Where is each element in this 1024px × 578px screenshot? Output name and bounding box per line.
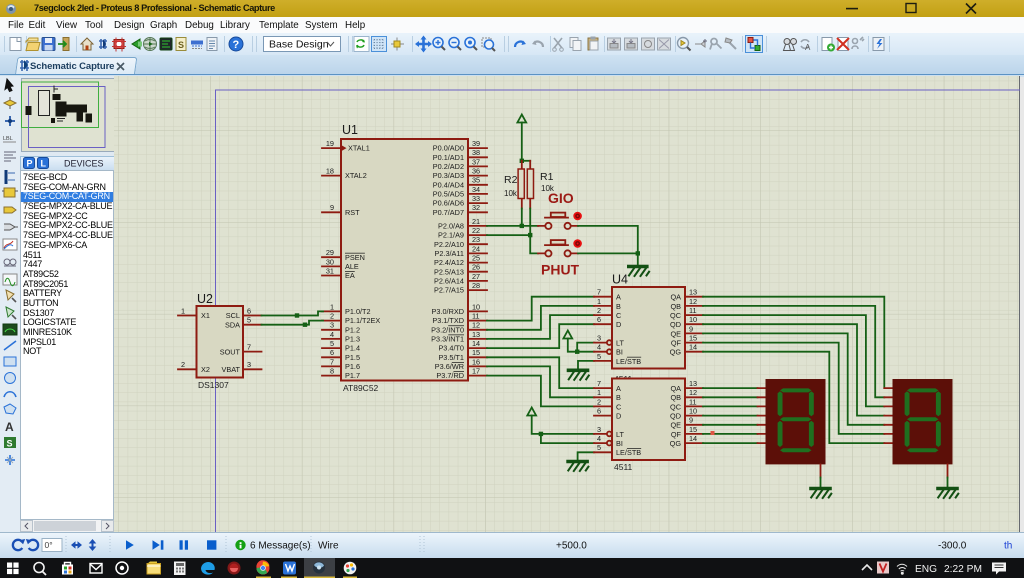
svg-text:11: 11 bbox=[689, 306, 697, 315]
wire U4 QF to right display staircase bbox=[703, 343, 884, 434]
svg-text:A: A bbox=[616, 293, 621, 302]
svg-text:12: 12 bbox=[689, 388, 697, 397]
grid toggle icon (active) bbox=[372, 37, 387, 52]
U1 left pin names bbox=[345, 144, 380, 381]
media player icon bbox=[283, 562, 296, 575]
U2 pin names bbox=[201, 311, 241, 374]
svg-text:P0.3/AD3: P0.3/AD3 bbox=[433, 171, 464, 180]
import icon bbox=[58, 38, 69, 51]
bus icon bbox=[6, 170, 15, 184]
svg-text:S: S bbox=[7, 439, 13, 449]
config icon bbox=[710, 39, 722, 50]
toolbar bbox=[0, 33, 1024, 55]
left panel bbox=[20, 76, 114, 533]
search icon bbox=[784, 39, 797, 51]
svg-text:14: 14 bbox=[472, 339, 480, 348]
ground at U5 LE/STB bbox=[568, 462, 588, 472]
measure icon bbox=[191, 41, 203, 49]
home icon bbox=[81, 38, 93, 50]
svg-text:0°: 0° bbox=[45, 540, 53, 550]
svg-text:2: 2 bbox=[597, 306, 601, 315]
redo icon bbox=[532, 41, 543, 48]
3d viewer icon bbox=[132, 39, 142, 49]
svg-text:QC: QC bbox=[670, 402, 681, 411]
remove sheet icon bbox=[837, 38, 849, 51]
block move icon bbox=[625, 38, 638, 50]
power symbol for U4 LT/BI bbox=[563, 331, 577, 352]
wire power to U5 BI bbox=[541, 434, 594, 443]
svg-text:P1.3: P1.3 bbox=[345, 335, 360, 344]
2d marker icon bbox=[5, 455, 15, 465]
svg-text:SOUT: SOUT bbox=[220, 347, 241, 356]
junction at power/R2/R1 bbox=[520, 159, 524, 163]
svg-text:QF: QF bbox=[671, 430, 682, 439]
2d box icon bbox=[4, 357, 16, 366]
svg-text:QB: QB bbox=[670, 302, 681, 311]
red origin marker bbox=[711, 431, 715, 435]
svg-text:P1.6: P1.6 bbox=[345, 362, 360, 371]
svg-text:30: 30 bbox=[326, 257, 334, 266]
resistor R1 bbox=[527, 161, 555, 209]
window title bar bbox=[0, 0, 1024, 17]
svg-text:1: 1 bbox=[330, 302, 334, 311]
svg-text:10: 10 bbox=[689, 407, 697, 416]
new sheet icon bbox=[822, 38, 835, 52]
svg-text:34: 34 bbox=[472, 185, 480, 194]
device pin icon bbox=[4, 224, 18, 230]
svg-text:7: 7 bbox=[597, 288, 601, 297]
wire SDA to U1 P1.1 bbox=[262, 321, 324, 325]
junction R2 / pin21 wire bbox=[520, 224, 524, 228]
svg-text:16: 16 bbox=[472, 357, 480, 366]
zoom in icon bbox=[433, 38, 445, 51]
svg-text:22: 22 bbox=[472, 226, 480, 235]
U5 part label 4511 bbox=[614, 462, 633, 472]
cut icon bbox=[553, 38, 564, 51]
report icon bbox=[207, 38, 217, 51]
wire power to U5 LT bbox=[541, 433, 594, 435]
U1 right pin names bbox=[431, 144, 464, 381]
svg-text:P2.4/A12: P2.4/A12 bbox=[434, 258, 464, 267]
svg-text:QG: QG bbox=[670, 348, 682, 357]
window controls bbox=[830, 0, 1024, 17]
wire label icon bbox=[3, 136, 16, 142]
svg-text:7: 7 bbox=[597, 379, 601, 388]
angle box bbox=[42, 539, 62, 552]
svg-text:35: 35 bbox=[472, 176, 480, 185]
svg-text:QA: QA bbox=[670, 384, 681, 393]
wire SCL to U1 P1.0 bbox=[262, 311, 324, 315]
hammer icon bbox=[725, 38, 736, 49]
L button bbox=[38, 158, 49, 169]
svg-text:?: ? bbox=[233, 39, 240, 51]
svg-text:9: 9 bbox=[689, 416, 693, 425]
svg-text:ALE: ALE bbox=[345, 262, 359, 271]
svg-text:LE/STB: LE/STB bbox=[616, 448, 641, 457]
svg-text:SCL: SCL bbox=[226, 311, 240, 320]
canvas background bbox=[114, 76, 1020, 532]
svg-text:14: 14 bbox=[689, 343, 697, 352]
selection mode icon bbox=[5, 79, 13, 92]
svg-text:P1.2: P1.2 bbox=[345, 325, 360, 334]
svg-text:A: A bbox=[616, 384, 621, 393]
2d line icon bbox=[4, 341, 16, 350]
wire U1 pin21 to GIO switch bbox=[487, 225, 538, 227]
svg-text:6: 6 bbox=[330, 348, 334, 357]
decoder U4 body (4511) bbox=[612, 273, 685, 369]
DS1 segments bbox=[778, 388, 814, 452]
open folder icon bbox=[26, 38, 40, 51]
tray chevron bbox=[862, 565, 872, 570]
svg-text:S: S bbox=[178, 40, 184, 50]
svg-text:QE: QE bbox=[670, 421, 681, 430]
svg-text:36: 36 bbox=[472, 167, 480, 176]
svg-text:2: 2 bbox=[181, 360, 185, 369]
svg-text:XTAL1: XTAL1 bbox=[348, 144, 370, 153]
svg-text:VBAT: VBAT bbox=[221, 365, 240, 374]
2d symbol icon bbox=[4, 437, 16, 449]
svg-text:5: 5 bbox=[247, 316, 251, 325]
svg-text:11: 11 bbox=[472, 312, 480, 321]
wire power to U4 BI bbox=[577, 351, 594, 353]
junction R1 / pin22 wire bbox=[528, 233, 532, 237]
svg-text:12: 12 bbox=[472, 321, 480, 330]
svg-text:P0.1/AD1: P0.1/AD1 bbox=[433, 153, 464, 162]
svg-text:12: 12 bbox=[689, 297, 697, 306]
svg-text:U4: U4 bbox=[612, 273, 628, 287]
refresh icon bbox=[354, 37, 369, 52]
P button bbox=[24, 158, 35, 169]
svg-text:13: 13 bbox=[689, 288, 697, 297]
svg-text:10: 10 bbox=[689, 315, 697, 324]
wire U4 QG to right display staircase bbox=[703, 352, 884, 443]
svg-text:29: 29 bbox=[326, 248, 334, 257]
U5 pin stubs bbox=[594, 388, 703, 452]
active app underlines bbox=[256, 577, 357, 578]
tape icon bbox=[4, 259, 16, 266]
wire U5 LE/STB to ground bbox=[578, 452, 594, 460]
svg-text:4511: 4511 bbox=[614, 462, 633, 472]
svg-text:QD: QD bbox=[670, 320, 681, 329]
svg-text:P2.2/A10: P2.2/A10 bbox=[434, 240, 464, 249]
PHUT button actuator bbox=[573, 239, 582, 248]
erc icon bbox=[873, 38, 884, 51]
schematic canvas bbox=[114, 76, 1020, 532]
junction buttons ground riser bbox=[636, 251, 640, 255]
svg-text:1: 1 bbox=[597, 388, 601, 397]
svg-text:4: 4 bbox=[597, 434, 601, 443]
U2 pin numbers bbox=[181, 306, 251, 369]
svg-text:L: L bbox=[41, 159, 47, 169]
mail icon bbox=[90, 564, 102, 574]
svg-text:2: 2 bbox=[330, 312, 334, 321]
svg-text:D: D bbox=[616, 320, 621, 329]
svg-text:-300.0: -300.0 bbox=[938, 541, 967, 552]
wire mode icon bbox=[4, 97, 16, 109]
overview green viewport rect bbox=[22, 82, 99, 128]
tray V icon bbox=[877, 562, 889, 574]
copy icon bbox=[570, 38, 581, 51]
goto icon bbox=[678, 38, 691, 51]
U4 pin names bbox=[616, 293, 682, 366]
overview mini schematic bbox=[26, 86, 93, 124]
GIO button actuator bbox=[573, 212, 582, 221]
7-segment display DS1 body bbox=[766, 379, 826, 464]
svg-text:Base Design: Base Design bbox=[269, 39, 329, 51]
svg-text:P3.6/WR: P3.6/WR bbox=[435, 362, 464, 371]
svg-text:18: 18 bbox=[326, 167, 334, 176]
generator icon bbox=[3, 274, 17, 286]
svg-text:A: A bbox=[5, 420, 14, 434]
menu bar bbox=[0, 17, 1024, 34]
wire U1 P3.5 to U5 input A bbox=[487, 357, 594, 388]
help icon bbox=[229, 37, 243, 51]
wire U4 QC to right display staircase bbox=[703, 315, 884, 406]
pan icon bbox=[415, 36, 432, 53]
security icon bbox=[228, 562, 241, 575]
DS2 common cathode wire bbox=[947, 464, 949, 486]
svg-text:C: C bbox=[616, 311, 621, 320]
U1 right pin stubs bbox=[468, 148, 487, 376]
wire U1 P3.7 to U5 input C bbox=[487, 376, 594, 407]
design explorer icon bbox=[160, 38, 172, 50]
svg-text:5: 5 bbox=[597, 443, 601, 452]
wire U1 P3.1 to U4 input A bbox=[487, 297, 594, 321]
svg-text:15: 15 bbox=[472, 348, 480, 357]
power symbol above R2/R1 bbox=[517, 115, 526, 161]
svg-text:P3.3/INT1: P3.3/INT1 bbox=[431, 335, 464, 344]
wire U1 P3.6 to U5 input B bbox=[487, 366, 594, 397]
svg-text:7: 7 bbox=[330, 357, 334, 366]
wire U4 QE to right display staircase bbox=[703, 333, 884, 424]
junction U4 LT/BI power bbox=[575, 350, 579, 354]
graph mode icon bbox=[3, 239, 17, 250]
svg-text:6: 6 bbox=[597, 407, 601, 416]
svg-text:R2: R2 bbox=[504, 174, 518, 186]
svg-text:14: 14 bbox=[689, 434, 697, 443]
step button bbox=[153, 540, 164, 549]
IC U2 body (DS1307 RTC) bbox=[197, 292, 244, 390]
flip vertical icon bbox=[89, 539, 97, 551]
ground at U4 LE/STB bbox=[569, 370, 589, 380]
schematic tab icon + label bbox=[18, 58, 32, 73]
svg-text:P3.2/INT0: P3.2/INT0 bbox=[431, 325, 464, 334]
svg-text:P: P bbox=[27, 159, 33, 169]
junction U5 LT/BI power bbox=[539, 432, 543, 436]
svg-text:4: 4 bbox=[330, 330, 334, 339]
svg-text:5: 5 bbox=[330, 339, 334, 348]
pcb layout icon bbox=[112, 38, 126, 52]
svg-text:Wire: Wire bbox=[318, 541, 339, 552]
decoder U5 body (4511) bbox=[612, 379, 685, 461]
svg-text:P0.5/AD5: P0.5/AD5 bbox=[433, 190, 464, 199]
svg-text:38: 38 bbox=[472, 148, 480, 157]
svg-text:th: th bbox=[1004, 541, 1012, 552]
block delete icon bbox=[658, 38, 671, 50]
U4 pin stubs bbox=[594, 297, 703, 361]
start button bbox=[7, 563, 19, 575]
origin icon bbox=[391, 38, 404, 51]
paint icon bbox=[344, 562, 357, 575]
svg-text:+500.0: +500.0 bbox=[556, 541, 587, 552]
wire U4 QA to right display staircase bbox=[703, 297, 884, 388]
paste icon bbox=[588, 37, 598, 51]
svg-text:PSEN: PSEN bbox=[345, 253, 365, 262]
svg-text:3: 3 bbox=[247, 360, 251, 369]
svg-text:C: C bbox=[616, 402, 621, 411]
right display pin stubs bbox=[884, 388, 893, 443]
svg-text:27: 27 bbox=[472, 272, 480, 281]
svg-text:B: B bbox=[616, 393, 621, 402]
svg-text:D: D bbox=[616, 412, 621, 421]
svg-text:R1: R1 bbox=[540, 171, 554, 183]
svg-text:2: 2 bbox=[597, 397, 601, 406]
svg-text:QB: QB bbox=[670, 393, 681, 402]
svg-text:1: 1 bbox=[181, 306, 185, 315]
svg-text:P2.0/A8: P2.0/A8 bbox=[438, 222, 464, 231]
DS2 segments bbox=[905, 388, 941, 452]
svg-text:6 Message(s): 6 Message(s) bbox=[250, 541, 311, 552]
get started icon bbox=[116, 562, 128, 574]
svg-text:31: 31 bbox=[326, 266, 334, 275]
message info icon bbox=[235, 540, 245, 550]
svg-text:X2: X2 bbox=[201, 365, 210, 374]
svg-text:A: A bbox=[805, 43, 811, 52]
block rotate icon bbox=[642, 38, 655, 50]
wire U1 P3.2 to U4 input B bbox=[487, 306, 594, 330]
resistor R2 bbox=[504, 161, 524, 209]
svg-text:6: 6 bbox=[597, 315, 601, 324]
svg-text:P2.7/A15: P2.7/A15 bbox=[434, 286, 464, 295]
left display pin stubs bbox=[758, 388, 767, 443]
svg-text:P1.1/T2EX: P1.1/T2EX bbox=[345, 316, 380, 325]
junction on SCL wire bbox=[295, 313, 299, 317]
svg-text:9: 9 bbox=[330, 203, 334, 212]
proteus active app bbox=[304, 558, 335, 578]
svg-text:28: 28 bbox=[472, 281, 480, 290]
left icon column bbox=[0, 76, 21, 533]
svg-text:3: 3 bbox=[330, 321, 334, 330]
wire PHUT to ground riser bbox=[578, 253, 638, 264]
notification icon bbox=[992, 563, 1006, 575]
label GIO bbox=[548, 190, 574, 206]
title bar app icon bbox=[5, 3, 17, 15]
current probe icon bbox=[6, 307, 16, 319]
svg-text:7: 7 bbox=[247, 343, 251, 352]
wire R1 bottom down to PHUT row bbox=[530, 209, 538, 254]
text script icon bbox=[4, 152, 16, 161]
IC U1 body (AT89C52 microcontroller) bbox=[341, 123, 468, 393]
push button PHUT bbox=[538, 240, 578, 256]
wire autorouter icon (active) bbox=[746, 36, 763, 53]
svg-text:EA: EA bbox=[345, 271, 355, 280]
tab bar bbox=[0, 55, 1024, 76]
2d circle icon bbox=[5, 373, 16, 384]
U1 right pin numbers bbox=[472, 139, 480, 376]
wire R2 bottom to P2.0 row bbox=[521, 209, 523, 226]
svg-text:GIO: GIO bbox=[548, 190, 574, 206]
subcircuit icon bbox=[2, 188, 18, 197]
svg-text:P1.7: P1.7 bbox=[345, 371, 360, 380]
svg-text:P0.0/AD0: P0.0/AD0 bbox=[433, 144, 464, 153]
svg-text:QG: QG bbox=[670, 439, 682, 448]
junction mode icon bbox=[5, 116, 15, 126]
svg-text:10k: 10k bbox=[504, 189, 518, 198]
windows taskbar bbox=[0, 558, 1024, 578]
svg-text:4: 4 bbox=[597, 343, 601, 352]
U5 pin names bbox=[616, 384, 682, 457]
wire power to U4 LT bbox=[577, 343, 594, 352]
svg-text:24: 24 bbox=[472, 244, 480, 253]
goto sheet icon bbox=[852, 37, 864, 49]
base design combo bbox=[264, 37, 341, 52]
search icon bbox=[34, 563, 46, 576]
svg-text:LT: LT bbox=[616, 339, 625, 348]
svg-text:P0.4/AD4: P0.4/AD4 bbox=[433, 180, 464, 189]
svg-text:BI: BI bbox=[616, 348, 623, 357]
ground below DS1 bbox=[811, 489, 831, 499]
ground below buttons bbox=[629, 267, 649, 277]
stop button bbox=[207, 540, 216, 549]
svg-text:AT89C52: AT89C52 bbox=[343, 383, 379, 393]
svg-text:P1.4: P1.4 bbox=[345, 344, 360, 353]
svg-text:26: 26 bbox=[472, 263, 480, 272]
2d text icon bbox=[5, 420, 14, 434]
svg-text:2:22 PM: 2:22 PM bbox=[944, 564, 982, 575]
pause button bbox=[180, 540, 189, 549]
svg-text:DS1307: DS1307 bbox=[198, 380, 229, 390]
wire U1 P3.3 to U4 input C bbox=[487, 315, 594, 339]
chrome icon bbox=[256, 560, 269, 574]
svg-text:P0.2/AD2: P0.2/AD2 bbox=[433, 162, 464, 171]
bom icon bbox=[176, 38, 186, 51]
svg-text:39: 39 bbox=[472, 139, 480, 148]
svg-text:P2.6/A14: P2.6/A14 bbox=[434, 277, 464, 286]
svg-text:3: 3 bbox=[597, 425, 601, 434]
svg-text:P3.7/RD: P3.7/RD bbox=[436, 371, 464, 380]
svg-text:BI: BI bbox=[616, 439, 623, 448]
undo icon bbox=[515, 41, 526, 48]
svg-text:QC: QC bbox=[670, 311, 681, 320]
svg-text:6: 6 bbox=[247, 306, 251, 315]
flip horizontal icon bbox=[71, 541, 82, 549]
file explorer icon bbox=[147, 562, 161, 575]
svg-text:P3.0/RXD: P3.0/RXD bbox=[432, 307, 464, 316]
svg-text:LE/STB: LE/STB bbox=[616, 357, 641, 366]
svg-text:21: 21 bbox=[472, 217, 480, 226]
wire U4 QD to right display staircase bbox=[703, 324, 884, 415]
store icon bbox=[62, 563, 73, 575]
svg-text:13: 13 bbox=[689, 379, 697, 388]
svg-text:PHUT: PHUT bbox=[541, 262, 580, 278]
2d arc icon bbox=[4, 392, 16, 397]
svg-text:P1.5: P1.5 bbox=[345, 353, 360, 362]
ground below DS2 bbox=[938, 489, 958, 499]
edge icon bbox=[201, 562, 215, 575]
svg-text:LT: LT bbox=[616, 430, 625, 439]
DS1 common cathode wire bbox=[820, 464, 822, 486]
property assign icon bbox=[801, 40, 811, 52]
U5 pin numbers bbox=[597, 379, 697, 452]
schematic capture icon bbox=[99, 39, 107, 49]
svg-text:QA: QA bbox=[670, 293, 681, 302]
wire U4 QB to right display staircase bbox=[703, 306, 884, 397]
wire U1 pin22 to R1 junction bbox=[487, 234, 530, 236]
svg-text:9: 9 bbox=[689, 324, 693, 333]
block copy icon bbox=[608, 38, 621, 50]
U4 part label 4511 (clipped by U5) bbox=[614, 374, 633, 384]
svg-text:QD: QD bbox=[670, 412, 681, 421]
